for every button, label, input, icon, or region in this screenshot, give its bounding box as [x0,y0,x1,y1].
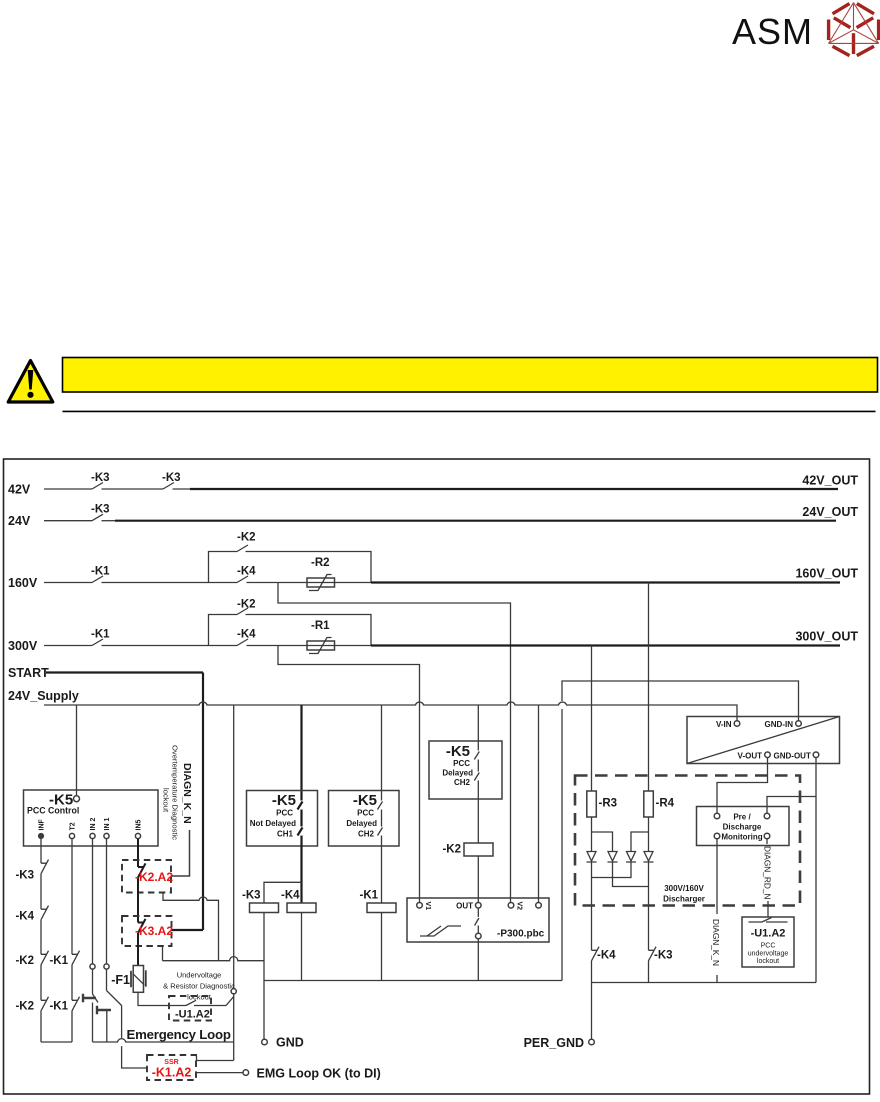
wire [102,488,164,490]
terminal circle EMG Loop OK [243,1070,249,1076]
diode D4 [644,852,654,863]
svg-text:42V_OUT: 42V_OUT [802,474,858,488]
switch contact below OUT [475,908,479,933]
pin V1 [417,903,423,909]
svg-text:Monitoring: Monitoring [721,833,762,842]
terminal circle GND [262,1039,268,1045]
wire CH1 bold column from bus [300,705,302,801]
svg-text:PCC: PCC [453,759,470,768]
svg-text:undervoltage: undervoltage [748,951,789,958]
wire bus drop to emergency column [233,705,235,988]
svg-text:-K1: -K1 [91,629,110,641]
relay box -K5 PCC Delayed CH2 [329,791,400,847]
relay coil -K3 [242,890,279,913]
wire GND-IN riser [562,681,799,981]
svg-text:Pre /: Pre / [733,813,751,822]
branch -K2 bypass (160V) [209,552,238,583]
wire CH2 column from bus [381,705,383,801]
relay box -K5 PCC Not Delayed CH1 [247,791,318,847]
svg-text:DIAGN_K_N: DIAGN_K_N [711,919,721,966]
rule line under banner [63,410,876,412]
wire DIAGN_K_N stub [172,830,190,876]
svg-text:PCC: PCC [357,809,374,818]
svg-text:300V/160V: 300V/160V [664,884,704,893]
svg-text:GND-IN: GND-IN [765,720,794,729]
wire step from -K2.A2 bottom with hop [163,893,219,961]
wire 160V sense tap to V2 [278,583,511,903]
wire 42V row [44,488,92,490]
wire D3 crossover to R3 column [592,862,632,878]
svg-text:-R2: -R2 [311,557,330,569]
svg-text:-U1.A2: -U1.A2 [175,1009,210,1021]
switch contact -K4 (300V) [237,639,248,646]
svg-text:START: START [8,666,49,680]
switch contact -U1.A2 [186,1000,196,1005]
relay coil -K4 [281,890,316,913]
wire [335,582,373,584]
warning triangle icon [8,361,53,403]
svg-text:-K2: -K2 [442,844,461,856]
svg-text:IN 2: IN 2 [90,818,97,831]
switch contact -K2 (INF chain second) [41,997,49,1042]
wire U-bottom joining INF and T2 [41,1041,72,1043]
monitor box Pre/Discharge Monitoring [697,807,790,846]
resistor R3 [587,791,617,817]
wire [102,645,238,647]
device box -P300.pbc [407,898,549,942]
wire branch to -K3 coil [264,882,302,903]
switch contact -K3 (INF chain) [41,860,49,910]
svg-text:IN5: IN5 [136,820,143,831]
svg-text:300V_OUT: 300V_OUT [795,630,858,644]
svg-text:OUT: OUT [456,902,473,911]
terminal circle emergency loop [231,989,236,994]
switch contacts CH2 upper (double break) [474,752,479,844]
switch contact -K1 (300V) [92,639,103,646]
ASM logo hexagon icon [829,3,879,56]
wire CH2-top column from bus [477,705,479,751]
switch contact -K3.A2 [138,919,146,966]
fuse resistor F1 [111,966,146,993]
wire GND drop [263,913,265,1040]
svg-text:Not Delayed: Not Delayed [250,819,296,828]
schematic frame border [4,459,870,1094]
switch contact -K2 (INF chain first) [41,951,49,1001]
svg-text:-K2.A2: -K2.A2 [135,870,173,884]
wire IN 1 column [106,839,108,964]
svg-text:160V: 160V [8,576,38,590]
switch plunger contact (IN2) [93,969,99,1042]
svg-text:Delayed: Delayed [442,769,473,778]
svg-text:CH1: CH1 [277,830,294,839]
svg-text:-K4: -K4 [281,890,300,902]
dashed enclosure -K3.A2 [122,916,172,946]
wire branch GND-OUT to monitor pin [767,797,816,814]
svg-text:Delayed: Delayed [346,819,377,828]
net DIAGN_RD_N wire and rotated label [766,839,768,844]
svg-text:DIAGN_RD_N: DIAGN_RD_N [763,846,773,899]
svg-text:V2: V2 [516,902,523,911]
wire R3 column to -K4 contact [591,862,593,950]
relay coil -K1 [360,890,397,913]
wire 300V row [44,645,92,647]
wire bus drop to -K5 control [76,705,78,796]
dashed enclosure SSR -K1.A2 [147,1055,196,1080]
diode D2 [608,852,618,863]
terminal circle IN2 switch [90,964,95,969]
svg-text:-K3: -K3 [91,472,110,484]
wire CH1 column below coil to GND rail [301,913,303,981]
svg-text:-K3: -K3 [654,950,673,962]
svg-text:-K1.A2: -K1.A2 [152,1066,192,1080]
switch contact -K3 (42V second) [163,483,174,490]
svg-text:-K4: -K4 [597,950,616,962]
svg-text:-K1: -K1 [49,1001,68,1013]
wire F1 to -U1.A2 switch [138,992,186,1005]
switch contact -K3 (discharger) [649,947,657,983]
resistor R2 [307,557,335,591]
svg-text:EMG Loop OK (to DI): EMG Loop OK (to DI) [257,1067,381,1081]
wire R4 column to -K3 contact [648,862,650,950]
wire D2 crossover to R4 column [613,862,649,887]
svg-text:lockout: lockout [757,958,779,965]
wire INF column with contacts [40,839,42,864]
relay coil -K2 [442,843,493,856]
svg-text:V-OUT: V-OUT [738,752,763,761]
wire 160V row [44,582,92,584]
resistor R1 [307,620,335,654]
wire lockout rail with hop over emergency column [163,957,265,961]
svg-text:-K2: -K2 [15,1001,34,1013]
wire V-OUT to monitor [717,758,768,814]
svg-text:-K3.A2: -K3.A2 [135,924,173,938]
wire from -K3.A2 bottom to lockout rail [162,946,164,961]
svg-text:-K2: -K2 [15,955,34,967]
switch contact -K2.A2 [138,863,146,922]
wire IN5 column bold [137,839,139,867]
svg-text:-K4: -K4 [15,911,34,923]
svg-text:T2: T2 [70,822,77,830]
svg-text:-F1: -F1 [111,973,130,987]
svg-text:24V: 24V [8,514,31,528]
wire R3 to diode 1 [591,817,593,852]
wire to emergency contact circle [194,997,234,1006]
wire to PER_GND terminal [591,983,593,1040]
svg-text:24V_Supply: 24V_Supply [8,689,79,703]
svg-text:-K1: -K1 [49,955,68,967]
wire [247,645,335,647]
switch contact -K4 (INF chain) [41,906,49,955]
wire START vertical down to -K3.A2 [172,673,204,931]
wire branch to diode 3 [631,832,649,852]
pin V2 [508,903,514,909]
svg-text:lockout: lockout [187,993,212,1002]
svg-text:-K5: -K5 [353,792,377,809]
svg-text:CH2: CH2 [454,778,471,787]
svg-text:Discharge: Discharge [723,823,762,832]
switch contact -K3 (42V first) [92,483,103,490]
dashed enclosure -U1.A2 (emergency loop) [169,996,211,1021]
wire [247,582,335,584]
svg-text:24V_OUT: 24V_OUT [802,505,858,519]
wire R4 to diode 4 [648,817,650,852]
pin IN5 [135,833,140,838]
svg-text:Emergency Loop: Emergency Loop [127,1027,231,1042]
svg-text:V-IN: V-IN [716,720,732,729]
svg-text:-P300.pbc: -P300.pbc [497,929,545,940]
switch contact -K3 (24V) [92,514,103,521]
svg-text:-K4: -K4 [237,629,256,641]
wire [102,582,238,584]
yellow warning banner [63,358,878,393]
svg-text:-K2: -K2 [237,532,256,544]
svg-text:-K3: -K3 [15,870,34,882]
svg-text:-K5: -K5 [272,792,296,809]
pin IN 1 [104,833,109,838]
switch contacts CH1 (double break) [298,802,303,904]
net DIAGN_K_N wire and rotated label [716,839,718,914]
svg-text:ASM: ASM [732,11,813,52]
svg-text:GND: GND [276,1036,304,1050]
svg-text:CH2: CH2 [358,830,375,839]
relay box -K5 PCC Delayed CH2 (upper) [429,741,502,799]
svg-text:-R3: -R3 [599,798,618,810]
switch contact -K1 (T2 chain first) [72,951,80,1001]
dashed enclosure 300V/160V Discharger [575,776,800,906]
wire [335,645,373,647]
svg-text:Overtemperature Diagnostic: Overtemperature Diagnostic [171,745,180,840]
pin 4 [536,903,542,909]
actuator lever 2 [97,1006,111,1015]
wire GND-OUT down right side [815,758,817,983]
svg-text:-K3: -K3 [91,504,110,516]
svg-text:-R4: -R4 [656,798,675,810]
wire bypass return [246,615,372,646]
svg-text:-K2: -K2 [237,599,256,611]
terminal circle IN1 switch [104,964,109,969]
svg-text:-K4: -K4 [237,566,256,578]
wire discharge bottom rail [592,982,817,984]
power module box V-IN/GND-IN/V-OUT/GND-OUT [687,717,840,764]
svg-text:PER_GND: PER_GND [524,1036,584,1050]
dashed enclosure -K2.A2 [122,860,171,893]
relay box -K5 PCC Control [24,790,159,846]
svg-text:V1: V1 [424,902,431,911]
svg-text:-K3: -K3 [162,472,181,484]
svg-text:lockout: lockout [162,788,171,813]
switch contacts CH2 (double break) [378,802,383,904]
svg-text:300V: 300V [8,639,38,653]
svg-text:INF: INF [39,819,46,831]
branch -K2 bypass (300V) [209,615,238,646]
wire bus drop to P300 pin4 [538,705,540,903]
svg-text:PCC: PCC [761,943,776,950]
wire GND rail horizontal [264,980,562,982]
wire bypass return [246,552,372,583]
switch contact -K2 (160V bypass) [237,545,248,552]
wire 24V row [44,520,92,522]
wire 160V drop to R4 [648,583,650,792]
diode D3 [626,852,636,863]
wire coil K2 to OUT pin [477,856,479,903]
switch contact -K4 (discharger) [592,947,600,983]
wire IN 2 column [92,839,94,964]
svg-text:IN 1: IN 1 [104,818,111,831]
svg-text:PCC Control: PCC Control [27,806,79,816]
pin IN 2 [90,833,95,838]
pin INF [38,833,43,838]
diode D1 [587,852,597,863]
resistor R4 [644,791,675,817]
svg-text:Undervoltage: Undervoltage [177,971,222,980]
svg-text:-U1.A2: -U1.A2 [751,928,786,940]
svg-text:GND-OUT: GND-OUT [774,752,811,761]
svg-text:-R1: -R1 [311,620,330,632]
wire 24V_Supply bus with hops [44,702,737,721]
terminal circle PER_GND [589,1039,595,1045]
svg-text:160V_OUT: 160V_OUT [795,567,858,581]
wire branch to diode 2 [592,832,613,852]
wire OUT lower to GND rail [477,939,479,981]
switch contact -K1 (160V) [92,576,103,583]
svg-text:& Resistor Diagnostic: & Resistor Diagnostic [163,982,235,991]
wire -K1.A2 output to EMG terminal [196,1072,243,1074]
svg-text:Discharger: Discharger [663,895,705,904]
wire 300V bold to output [371,644,840,646]
terminal circle OUT lower [476,933,482,939]
wire emergency column below circle [233,994,235,1061]
svg-text:-K5: -K5 [446,743,470,760]
wire emergency bottom rail with hop [93,1039,234,1042]
switch plunger contact (IN1) long blade [107,969,122,1005]
wire 42V bold to output [173,488,191,490]
svg-text:DIAGN_K_N: DIAGN_K_N [181,763,193,824]
wire feed to -K1.A2 from emergency column [197,1056,234,1061]
switch contact -K4 (160V) [237,576,248,583]
wire 300V drop to R3 [591,646,593,792]
svg-text:42V: 42V [8,483,31,497]
wire START bold [46,671,203,673]
wire from levers to -K1.A2 left [122,1006,147,1069]
wire 24V bold to output [102,520,117,522]
wire CH2 column below coil to GND rail [381,913,383,981]
actuator lever 1 [83,994,96,1003]
switch contact -K2 (300V bypass) [237,608,248,615]
svg-text:-K1: -K1 [91,566,110,578]
hysteresis symbol [420,926,461,936]
wire 160V bold to output [371,581,840,583]
svg-text:-K3: -K3 [242,890,261,902]
wire 300V sense tap to V1 [278,646,420,903]
pin T2 [69,833,74,838]
svg-text:-K1: -K1 [360,890,379,902]
wire T2 column with contacts [71,839,73,955]
device box -U1.A2 PCC undervoltage lockout [742,917,794,967]
svg-text:PCC: PCC [276,809,293,818]
wire lever2 stub to bottom rail [106,1010,108,1042]
switch contact -K1 (T2 chain second) [72,997,80,1042]
